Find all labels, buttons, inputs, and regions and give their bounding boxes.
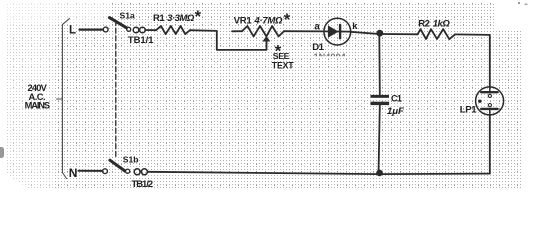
svg-text:TB1/1: TB1/1: [128, 34, 154, 45]
svg-text:k: k: [352, 21, 358, 32]
svg-text:*: *: [284, 11, 291, 29]
svg-text:D1: D1: [312, 42, 324, 53]
svg-text:R21kΩ: R21kΩ: [418, 19, 450, 30]
svg-text:L: L: [69, 24, 76, 36]
svg-text:N: N: [69, 166, 78, 180]
svg-text:C1: C1: [391, 94, 402, 104]
svg-text:VR14·7MΩ: VR14·7MΩ: [234, 16, 283, 27]
svg-text:a: a: [314, 21, 320, 32]
svg-text:*: *: [195, 8, 202, 26]
svg-text:S1b: S1b: [123, 155, 139, 165]
svg-text:R13·3MΩ: R13·3MΩ: [153, 13, 195, 24]
svg-text:S1a: S1a: [120, 10, 136, 20]
svg-text:1μF: 1μF: [387, 106, 405, 117]
svg-text:SEE: SEE: [273, 51, 290, 61]
svg-text:TB1/2: TB1/2: [132, 178, 153, 189]
svg-text:TEXT: TEXT: [272, 60, 295, 70]
svg-text:MAINS: MAINS: [25, 101, 50, 111]
svg-text:LP1: LP1: [460, 104, 477, 115]
